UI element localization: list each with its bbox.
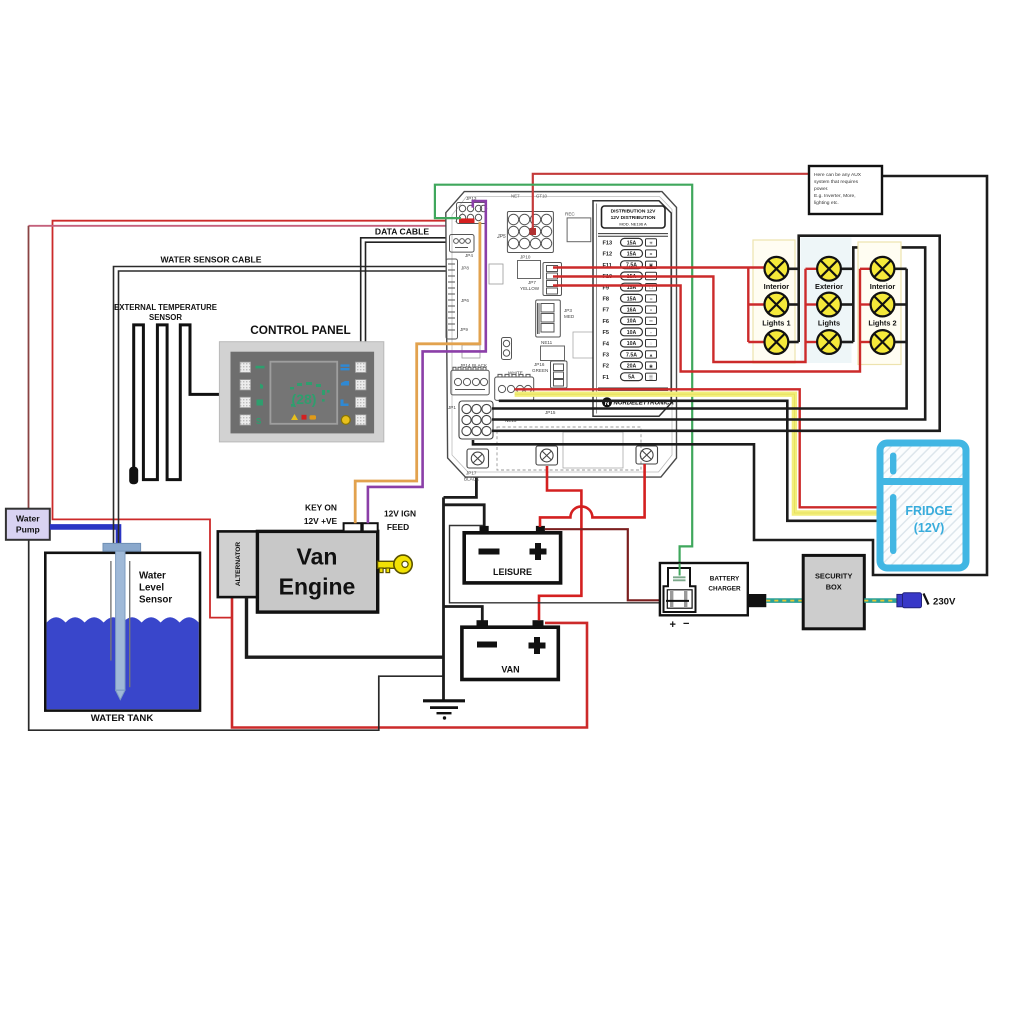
wire: red feed from distribution JP13 to alternator (left loop) (53, 221, 473, 618)
lamp exterior lights row 2 (817, 293, 841, 317)
svg-text:JP10: JP10 (520, 255, 531, 260)
svg-text:Pump: Pump (16, 525, 40, 535)
key-on connector tab 1 (344, 523, 362, 531)
svg-text:S: S (256, 417, 262, 426)
svg-text:Lights 2: Lights 2 (868, 319, 896, 328)
svg-text:JP5: JP5 (496, 234, 506, 240)
svg-text:CHARGER: CHARGER (708, 586, 741, 593)
fuse panel title block (602, 206, 666, 228)
svg-text:KEY ON: KEY ON (305, 503, 337, 513)
svg-text:E.g. Inverter, More,: E.g. Inverter, More, (814, 193, 856, 199)
svg-text:JP9: JP9 (460, 327, 468, 332)
svg-text:FRIDGE: FRIDGE (905, 504, 952, 518)
svg-text:LEISURE: LEISURE (493, 567, 532, 577)
svg-text:DATA CABLE: DATA CABLE (375, 227, 430, 237)
leisure battery (464, 526, 560, 583)
control panel LCD (270, 362, 337, 424)
svg-text:15A: 15A (627, 240, 637, 246)
svg-text:10A: 10A (627, 319, 637, 325)
230V plug (897, 594, 903, 606)
svg-text:F12: F12 (603, 252, 613, 258)
external temperature sensor serpentine element (134, 325, 221, 480)
red crimp blob at JP5 pin (530, 228, 537, 235)
label: Water Level Sensor (139, 571, 172, 606)
svg-text:(12V): (12V) (914, 521, 945, 535)
svg-text:12V +VE: 12V +VE (304, 516, 338, 526)
svg-text:15A: 15A (627, 252, 637, 258)
red crimp blob at JP13 (459, 218, 475, 223)
charger relay/plug symbol (664, 568, 696, 612)
svg-text:JP14: JP14 (460, 363, 471, 368)
bottom connector right (636, 446, 658, 464)
svg-text:GT10: GT10 (536, 194, 548, 199)
svg-text:Level: Level (139, 583, 164, 594)
connector JP2 MED (536, 300, 561, 337)
svg-text:◌: ◌ (650, 341, 653, 346)
LCD warning indicators (291, 414, 298, 420)
svg-text:JP3: JP3 (564, 308, 572, 313)
control panel buttons left column (240, 362, 251, 425)
svg-text:Lights 1: Lights 1 (762, 319, 790, 328)
svg-text:JP4: JP4 (465, 253, 473, 258)
svg-text:F3: F3 (603, 353, 610, 359)
svg-text:15A: 15A (627, 296, 637, 302)
lamp interior lights 2 row 3 (871, 330, 895, 354)
svg-text:(28): (28) (292, 391, 317, 407)
wire: orange key-on feed (355, 222, 480, 524)
wire: red fridge feed (515, 389, 880, 507)
wire: green distribution to battery charger (435, 185, 692, 564)
green wire stub inside charger (679, 564, 681, 576)
svg-text:Sensor: Sensor (139, 595, 172, 606)
striped 230V cable security box to plug (864, 598, 897, 603)
svg-text:MOD. NE196 A: MOD. NE196 A (619, 221, 647, 226)
connector JP13 (457, 203, 487, 224)
svg-text:10A: 10A (627, 330, 637, 336)
svg-text:Engine: Engine (279, 574, 356, 600)
connector JP14 BLACK (451, 367, 489, 395)
small 2-pin connector JP6 (502, 338, 512, 360)
svg-text:JP17: JP17 (466, 471, 477, 476)
distribution box outline (446, 192, 677, 478)
sketch: faint top dashed line (455, 193, 660, 223)
lights column backgrounds (753, 240, 795, 363)
lamp exterior lights row 1 (817, 257, 841, 281)
wire: JP17 black drop to ground bus (444, 468, 477, 497)
svg-text:SECURITY: SECURITY (815, 572, 852, 581)
svg-text:JP1: JP1 (448, 405, 456, 410)
svg-text:5A: 5A (628, 375, 635, 381)
key-on connector tab 2 (363, 523, 378, 531)
svg-text:MED: MED (564, 314, 575, 319)
svg-text:F7: F7 (603, 308, 610, 314)
connector JP4 (data cable) (450, 235, 475, 253)
control panel unit (219, 342, 383, 442)
wire: red alternator to van battery positive (bottom run) (232, 598, 587, 728)
wire: black water pump return to ground bus (29, 540, 444, 730)
van engine block (257, 531, 377, 612)
tank water (blue, wavy surface) (47, 617, 199, 709)
svg-text:BOX: BOX (826, 583, 842, 592)
sketch: small blocks (489, 264, 503, 284)
lights labels (762, 282, 896, 328)
connector JP4 WHITE (495, 374, 534, 400)
Nordelettronica logo (602, 397, 674, 410)
wire: red distribution to note box (533, 174, 809, 234)
wire: van battery negative to ground bus (444, 607, 482, 622)
sensor tip blob (129, 467, 138, 484)
ignition key (378, 555, 413, 573)
svg-text:12V IGN: 12V IGN (384, 509, 416, 519)
wire: dark red drop into water pump (28, 226, 30, 509)
black stubs lamps to returns (788, 269, 906, 342)
water level sensor probe assembly (103, 543, 141, 699)
connector JP16 GREEN (551, 361, 568, 388)
svg-text:CONTROL PANEL: CONTROL PANEL (250, 323, 351, 337)
svg-text:Water: Water (139, 571, 166, 582)
connector JP5 (12-pin) (507, 212, 553, 253)
svg-text:VAN: VAN (501, 665, 519, 675)
wire: black fridge return (499, 401, 880, 521)
panel green icons (256, 366, 265, 426)
data cable (double line) control panel to JP4 (361, 238, 451, 342)
security box (803, 555, 864, 628)
svg-text:DISTRIBUTION 12V: DISTRIBUTION 12V (611, 209, 657, 215)
svg-text:Lights: Lights (818, 319, 840, 328)
wire: purple ignition feed (368, 201, 486, 523)
svg-text:Here can be any AUX: Here can be any AUX (814, 172, 862, 178)
bottom connector JP17 (black) (467, 449, 489, 468)
connector JP8 (tall, water sensor) (446, 259, 458, 339)
wire: thin black leisure- to charger (450, 526, 669, 603)
svg-text:Exterior: Exterior (815, 282, 843, 291)
svg-text:JP6: JP6 (461, 298, 469, 303)
relay block (541, 346, 565, 361)
svg-text:NE11: NE11 (541, 340, 553, 345)
svg-text:F4: F4 (603, 341, 610, 347)
wire: lights black return col1 loop (492, 236, 940, 431)
svg-text:Water: Water (16, 514, 40, 524)
water pump (6, 509, 50, 540)
svg-text:16A: 16A (627, 308, 637, 314)
svg-text:BLACK: BLACK (464, 477, 480, 482)
note box (809, 166, 882, 214)
lamp interior lights 2 row 2 (871, 293, 895, 317)
wire: engine block to ground bus (247, 598, 444, 658)
svg-text:FEED: FEED (387, 522, 409, 532)
svg-text:+: + (670, 619, 676, 631)
svg-text:power.: power. (814, 186, 828, 192)
svg-text:WATER TANK: WATER TANK (91, 713, 154, 724)
svg-text:20A: 20A (627, 364, 637, 370)
REC block lower (518, 261, 541, 279)
wire: red leisure+ to distribution (with hop) (540, 464, 645, 527)
wire: red feed interior lights 1 (553, 268, 765, 343)
wire: lights black return col3 (492, 269, 907, 409)
ground symbol (423, 701, 465, 713)
svg-text:WHITE: WHITE (508, 371, 523, 376)
connector JP7 YELLOW (543, 263, 562, 296)
wire: red feed interior lights 2 (553, 269, 871, 372)
svg-text:system that requires: system that requires (814, 179, 859, 185)
REC block (567, 218, 591, 242)
water sensor cable (double line) from tank probe up and right to JP8 (114, 267, 450, 562)
svg-text:Interior: Interior (764, 282, 790, 291)
svg-text:≡: ≡ (650, 252, 653, 257)
svg-text:230V: 230V (933, 597, 956, 608)
wire: yellow fridge feed (515, 394, 880, 513)
arrowhead on JP17 black wire (473, 470, 481, 477)
striped 230V cable charger to security box (766, 598, 803, 603)
lamp interior lights 1 row 2 (765, 293, 789, 317)
wire: leisure battery negative to ground bus (444, 505, 485, 527)
svg-text:BATTERY: BATTERY (710, 576, 740, 583)
svg-text:ALTERNATOR: ALTERNATOR (235, 542, 242, 587)
svg-text:F1: F1 (603, 375, 610, 381)
fridge 12V (880, 443, 966, 568)
svg-text:WATER SENSOR CABLE: WATER SENSOR CABLE (160, 255, 261, 265)
fuse list F13..F1 (603, 238, 657, 381)
svg-text:F2: F2 (603, 364, 610, 370)
svg-text:JP16: JP16 (534, 362, 545, 367)
control panel buttons right column (355, 362, 366, 425)
svg-text:JP8: JP8 (461, 266, 469, 271)
alternator (218, 531, 258, 597)
svg-text:F6: F6 (603, 319, 610, 325)
lamp interior lights 1 row 1 (765, 257, 789, 281)
svg-text:7.5A: 7.5A (626, 352, 637, 358)
svg-text:▲: ▲ (649, 352, 654, 357)
panel yellow power icon (341, 416, 350, 425)
svg-text:lighting etc.: lighting etc. (814, 200, 839, 206)
svg-text:F5: F5 (603, 330, 610, 336)
svg-text:NE7: NE7 (511, 194, 520, 199)
ground bus vertical (442, 497, 445, 700)
svg-text:REC: REC (565, 212, 575, 217)
svg-text:BLACK: BLACK (472, 363, 488, 368)
svg-text:SENSOR: SENSOR (149, 313, 182, 322)
svg-text:═: ═ (648, 319, 653, 324)
bottom connector middle (536, 446, 558, 465)
svg-text:Van: Van (297, 544, 338, 570)
svg-text:Interior: Interior (870, 282, 896, 291)
svg-text:12V DISTRIBUTION: 12V DISTRIBUTION (611, 215, 656, 221)
svg-text:F13: F13 (603, 241, 613, 247)
connector JP11 (3x3 round) (459, 401, 493, 439)
wire: red feed exterior lights (553, 269, 817, 362)
lamp interior lights 2 row 1 (871, 257, 895, 281)
svg-text:F8: F8 (603, 297, 610, 303)
sketch: inner outline (452, 197, 672, 473)
dashed service area (497, 427, 641, 470)
lamp exterior lights row 3 (817, 330, 841, 354)
fuse panel bottom separator (598, 388, 668, 390)
water pipe (blue) pump to tank probe (50, 527, 119, 545)
battery charger (660, 563, 766, 631)
van battery (462, 620, 558, 679)
svg-text:JP7: JP7 (528, 280, 536, 285)
svg-text:EXTERNAL TEMPERATURE: EXTERNAL TEMPERATURE (114, 303, 217, 312)
svg-text:−: − (683, 618, 689, 630)
charger output socket (748, 594, 767, 607)
wire: black aux loop to note box (473, 176, 987, 575)
svg-text:YELLOW: YELLOW (520, 286, 540, 291)
wire: red distribution to van battery + (539, 466, 581, 620)
svg-text:GREEN: GREEN (532, 368, 548, 373)
wire: maroon leisure+ to charger (545, 529, 667, 600)
svg-text:JP15: JP15 (545, 410, 556, 415)
lamp interior lights 1 row 3 (765, 330, 789, 354)
wire: pink feed from distribution JP5 to water pump (29, 225, 508, 227)
fuse panel outline (593, 201, 671, 416)
panel blue icons (341, 364, 350, 406)
water tank (45, 553, 200, 711)
svg-text:10A: 10A (627, 341, 637, 347)
wire: lights black return col2 loop (492, 247, 925, 419)
